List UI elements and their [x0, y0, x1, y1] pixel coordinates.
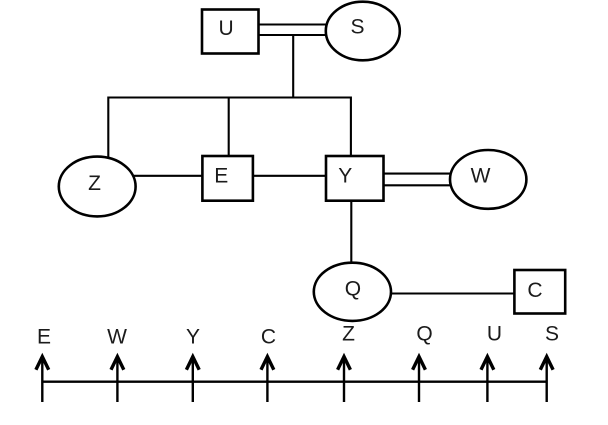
- svg-text:Z: Z: [88, 172, 101, 195]
- svg-text:S: S: [545, 322, 559, 345]
- circle S: [326, 2, 400, 61]
- marriage double line U-S: [258, 25, 327, 36]
- svg-text:Y: Y: [338, 164, 352, 187]
- svg-text:W: W: [107, 325, 127, 348]
- timeline arrow 4 (C): [261, 357, 274, 402]
- timeline arrow 2 (W): [111, 357, 124, 402]
- svg-text:C: C: [527, 279, 542, 302]
- circle W: [450, 150, 526, 209]
- svg-text:Q: Q: [416, 322, 432, 345]
- timeline arrow 7 (U): [481, 357, 494, 402]
- timeline arrow 3 (Y): [186, 357, 199, 402]
- svg-text:U: U: [487, 322, 502, 345]
- timeline baseline: [42, 381, 547, 383]
- drop Y to Q: [350, 201, 352, 264]
- svg-text:E: E: [214, 164, 228, 187]
- square U: [202, 10, 259, 54]
- descent line from U-S marriage: [292, 35, 294, 98]
- svg-text:C: C: [261, 325, 276, 348]
- svg-text:W: W: [471, 165, 491, 188]
- drop to Z: [107, 97, 109, 159]
- timeline arrow 8 (S): [540, 357, 553, 402]
- svg-text:U: U: [219, 17, 234, 40]
- square E: [202, 156, 253, 201]
- timeline arrow 1 (E): [36, 357, 49, 402]
- sibling bar: [108, 96, 351, 98]
- svg-text:Z: Z: [342, 322, 355, 345]
- marriage double line Y-W: [384, 174, 453, 186]
- line E-Y: [253, 175, 326, 177]
- timeline arrow 6 (Q): [413, 357, 426, 402]
- circle Z: [59, 157, 136, 217]
- svg-text:Y: Y: [186, 325, 200, 348]
- svg-text:Q: Q: [345, 278, 361, 301]
- timeline arrow 5 (Z): [338, 357, 351, 402]
- svg-text:S: S: [350, 15, 364, 38]
- square Y: [326, 156, 384, 201]
- circle Q: [314, 263, 391, 321]
- line Q-C: [389, 292, 515, 294]
- square C: [514, 270, 565, 314]
- drop to E: [228, 97, 230, 157]
- svg-text:E: E: [37, 325, 51, 348]
- line Z-E: [134, 175, 203, 177]
- drop to Y: [350, 97, 352, 157]
